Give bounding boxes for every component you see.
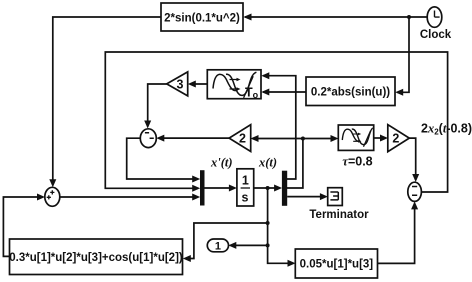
svg-text:τ=0.8: τ=0.8	[342, 154, 372, 168]
svg-text:3: 3	[177, 77, 184, 91]
svg-text:0.05*u[1]*u[3]: 0.05*u[1]*u[3]	[300, 258, 374, 270]
svg-text:2: 2	[239, 132, 246, 146]
node integrator output branch	[266, 186, 270, 190]
svg-text:1: 1	[215, 240, 221, 252]
block Fcn f2 0.2*abs(sin(u))	[306, 77, 395, 106]
wire S2 out to mux in1	[127, 138, 201, 182]
svg-text:x(t): x(t)	[258, 156, 277, 170]
mux bar1	[200, 170, 205, 205]
sum S2 middle	[140, 129, 156, 148]
gain G2R value 2	[388, 125, 410, 152]
wire variable delay out to gain G3	[188, 81, 208, 88]
gain G2L value 2	[229, 125, 251, 152]
wire S3 out feedback to mux in2	[105, 52, 447, 192]
block terminator	[328, 188, 343, 206]
svg-text:2x2(t-0.8): 2x2(t-0.8)	[421, 122, 472, 137]
block Fcn f1 output wire to sum S1 top	[49, 17, 161, 187]
outport 1	[207, 239, 228, 252]
block transport delay U2	[338, 125, 373, 150]
svg-text:Terminator: Terminator	[309, 209, 369, 221]
wire S1 out to mux in3	[60, 194, 200, 201]
wire f4 out to sum S3 bottom	[378, 201, 419, 263]
wire bar2 out1 to variable delay input 1	[261, 72, 296, 179]
node branch on clock wire	[407, 15, 411, 19]
block variable transport delay U1	[207, 70, 261, 99]
wire G2R to sum S3 top	[409, 138, 419, 182]
block Fcn f4 0.05*u[1]*u[3]	[295, 249, 377, 278]
wire bar2 out2 branch to G2L and delay	[251, 135, 339, 188]
sum S3 right	[408, 182, 422, 201]
svg-text:2: 2	[392, 132, 399, 146]
wire clock branch to f2	[395, 17, 409, 96]
svg-text:Clock: Clock	[420, 29, 452, 41]
gain G3 value 3	[167, 72, 188, 96]
block Fcn f1 2*sin(0.1*u^2)	[161, 3, 243, 31]
svg-text:1: 1	[242, 174, 249, 188]
svg-text:0.2*abs(sin(u)): 0.2*abs(sin(u))	[311, 86, 390, 98]
svg-text:2*sin(0.1*u^2): 2*sin(0.1*u^2)	[164, 12, 240, 24]
wire U2 to gain G2R	[374, 135, 388, 142]
svg-text:s: s	[242, 191, 249, 205]
wire branch to f3	[183, 223, 268, 262]
wire clock to f1	[243, 14, 427, 21]
wire branch to outport 1	[228, 242, 267, 249]
block integrator 1/s	[237, 169, 254, 206]
wire G3 to sum S2 top	[144, 84, 167, 129]
wire f2 to variable delay input 2	[261, 89, 306, 96]
wire G2L out to sum S2 right	[156, 135, 229, 142]
wire integrator to demux bar2	[254, 185, 282, 192]
svg-text:0.3*u[1]*u[2]*u[3]+cos(u[1]*u[: 0.3*u[1]*u[2]*u[3]+cos(u[1]*u[2])	[9, 252, 183, 264]
wire f3 out feedback to sum S1 left	[3, 194, 45, 257]
demux bar2	[282, 171, 287, 206]
wire bar2 out3 to terminator	[287, 193, 328, 200]
wire branch down from integrator output	[266, 188, 296, 267]
svg-text:x'(t): x'(t)	[210, 156, 233, 170]
block Fcn f3 0.3*...	[10, 239, 183, 275]
sum S1 left	[45, 187, 60, 206]
clock	[427, 7, 442, 27]
wire mux to integrator	[205, 185, 237, 192]
